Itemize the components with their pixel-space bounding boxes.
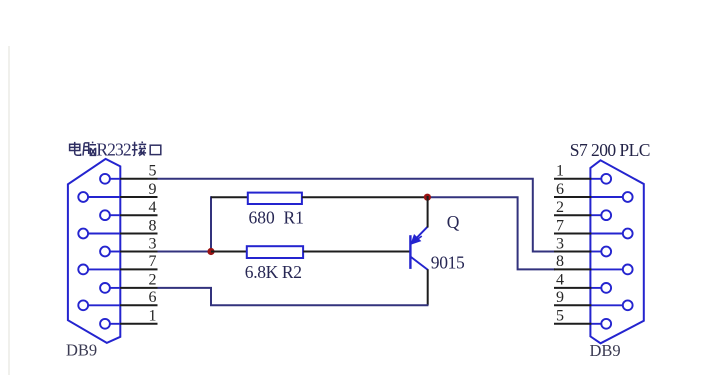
J1 pin circle 3 xyxy=(100,247,110,257)
J2 pin circle 1 xyxy=(601,174,611,184)
J1 external pin stubs (black) xyxy=(120,179,158,324)
svg-text:Q: Q xyxy=(447,212,460,232)
R1 right lead to node B xyxy=(302,196,428,198)
svg-text:4: 4 xyxy=(556,272,564,289)
wire: node A riser to R1 row xyxy=(211,197,212,252)
svg-text:8: 8 xyxy=(556,253,564,270)
svg-text:5: 5 xyxy=(556,308,564,325)
svg-text:6: 6 xyxy=(556,181,564,198)
接 xyxy=(132,142,146,156)
J2 external pin stubs (black) xyxy=(554,179,591,324)
Q collector vertical lead xyxy=(427,269,429,305)
resistor R1 xyxy=(248,193,302,204)
transistor Q 9015 (PNP) xyxy=(410,227,428,270)
svg-text:9: 9 xyxy=(556,289,564,306)
junction node A (red dot) xyxy=(207,248,214,255)
wire: J1 pin3 to node A xyxy=(158,251,212,253)
J1 pin circle 2 xyxy=(100,283,110,293)
svg-text:8: 8 xyxy=(149,217,157,234)
J1 pin circle 1 xyxy=(100,319,110,329)
R2 right lead to Q base xyxy=(303,251,410,253)
svg-text:1: 1 xyxy=(149,308,157,325)
svg-text:6: 6 xyxy=(149,289,157,306)
Q collector diagonal xyxy=(411,257,428,270)
svg-text:2: 2 xyxy=(556,199,564,216)
connector J1 body (DB9 male, left) xyxy=(68,159,120,343)
svg-text:680 R1: 680 R1 xyxy=(249,208,304,228)
Q base bar xyxy=(409,235,411,269)
J1 pin circle 7 xyxy=(78,265,88,275)
J1 pin circle 9 xyxy=(78,192,88,202)
svg-text:DB9: DB9 xyxy=(590,341,621,360)
口 xyxy=(150,145,161,154)
svg-text:4: 4 xyxy=(149,199,157,216)
J1 inner pin leads (blue) xyxy=(88,179,121,324)
J1 pin circle 5 xyxy=(100,174,110,184)
svg-text:6.8K R2: 6.8K R2 xyxy=(245,262,302,282)
J2 pin circle 5 xyxy=(601,319,611,329)
wire: node B to J2 pin8 xyxy=(427,197,555,269)
wire: Q collector to J1 pin2 xyxy=(158,288,429,305)
svg-text:S7 200 PLC: S7 200 PLC xyxy=(570,140,650,160)
J2 pin circle 6 xyxy=(623,192,633,202)
J1 pin circle 8 xyxy=(78,229,88,239)
svg-text:DB9: DB9 xyxy=(66,340,97,359)
电 xyxy=(70,142,81,155)
svg-text:1: 1 xyxy=(556,163,564,180)
R2 left lead from node A xyxy=(211,251,247,253)
Q emitter diagonal with arrow to base xyxy=(411,227,428,244)
faint scan artifact line at left margin xyxy=(8,46,10,375)
svg-text:9015: 9015 xyxy=(431,252,465,272)
J2 pin circle 2 xyxy=(601,210,611,220)
J2 pin numbers xyxy=(556,163,564,325)
svg-text:R232: R232 xyxy=(96,139,130,159)
J2 inner pin leads (blue) xyxy=(591,179,623,324)
J1 pin circle 4 xyxy=(100,210,110,220)
label: 电脑R232接口 (connector J1 title) xyxy=(70,142,161,156)
Q emitter vertical lead (to node B) xyxy=(427,196,429,228)
resistor R2 xyxy=(247,246,303,258)
wire: J1 pin5 to J2 pin3 xyxy=(158,179,556,252)
J2 pin circle 7 xyxy=(623,229,633,239)
脑 xyxy=(83,142,96,156)
svg-text:3: 3 xyxy=(556,235,564,252)
J2 pin circle 8 xyxy=(623,265,633,275)
connector J2 body (DB9, right) xyxy=(590,160,643,343)
J1 pin circle 6 xyxy=(78,300,88,310)
svg-text:7: 7 xyxy=(149,253,157,270)
J1 pin numbers xyxy=(149,163,157,325)
svg-text:7: 7 xyxy=(556,217,564,234)
svg-text:2: 2 xyxy=(149,272,157,289)
svg-text:3: 3 xyxy=(149,235,157,252)
J2 pin circle 9 xyxy=(623,300,633,310)
svg-text:5: 5 xyxy=(149,163,157,180)
junction node B (red dot) xyxy=(424,194,431,201)
svg-text:9: 9 xyxy=(149,181,157,198)
J2 pin circle 4 xyxy=(601,283,611,293)
J2 pin circle 3 xyxy=(601,247,611,257)
R1 left lead xyxy=(211,196,248,198)
